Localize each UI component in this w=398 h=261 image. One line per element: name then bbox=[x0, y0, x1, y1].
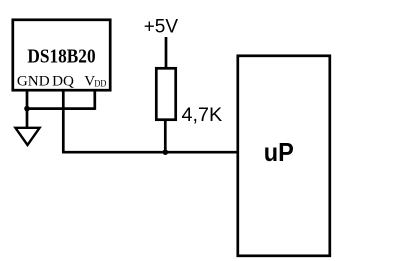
svg-text:uP: uP bbox=[264, 139, 294, 167]
wire resistor to DQ net bbox=[164, 120, 167, 153]
pin label VDD bbox=[84, 73, 106, 89]
wire VDD pin bbox=[93, 90, 96, 110]
wire to ground symbol bbox=[26, 109, 29, 128]
svg-text:4,7K: 4,7K bbox=[182, 105, 223, 126]
svg-text:GND: GND bbox=[17, 73, 50, 89]
wire GND pin bbox=[26, 90, 29, 109]
resistor 4,7K bbox=[156, 68, 175, 119]
sensor DS18B20 body bbox=[13, 20, 110, 90]
wire DQ pin to uP bbox=[63, 90, 238, 152]
microprocessor uP body bbox=[238, 56, 330, 256]
svg-text:DS18B20: DS18B20 bbox=[27, 46, 95, 67]
wire GND to VDD bbox=[27, 107, 95, 110]
svg-text:DQ: DQ bbox=[52, 73, 74, 89]
junction GND node bbox=[24, 106, 30, 112]
junction DQ node bbox=[163, 149, 169, 155]
wire +5V to resistor bbox=[165, 37, 168, 68]
svg-text:+5V: +5V bbox=[144, 17, 179, 38]
ground bbox=[15, 128, 39, 145]
svg-text:DD: DD bbox=[94, 78, 106, 89]
